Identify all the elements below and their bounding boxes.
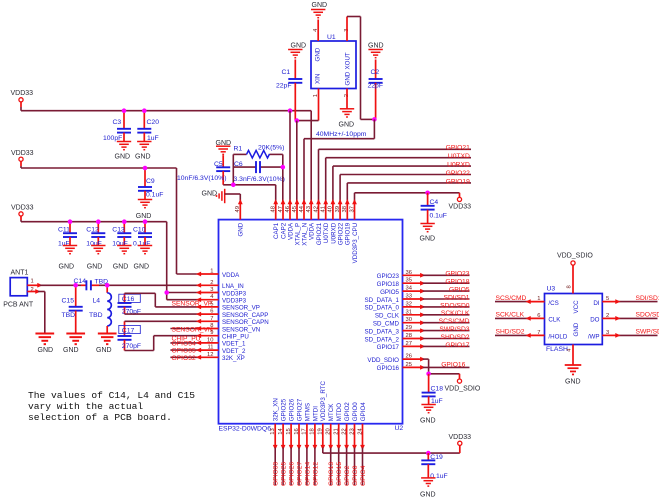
svg-text:selection of a PCB board.: selection of a PCB board. (28, 412, 172, 423)
wire CAP1 net (232, 154, 234, 184)
wire U1 pin3 XOUT (346, 17, 348, 42)
svg-text:37: 37 (349, 206, 355, 212)
pin 9 CHIP_PU (left) (198, 335, 218, 337)
svg-text:GND: GND (420, 492, 436, 499)
svg-text:1: 1 (210, 269, 213, 275)
wire C17 top to SENSOR_CAPN pin7 (125, 320, 199, 322)
svg-text:26: 26 (406, 354, 412, 360)
wire U1 pin1 XIN (318, 89, 320, 121)
svg-text:46: 46 (285, 206, 291, 212)
svg-text:GPIO19: GPIO19 (446, 178, 470, 185)
pin 40 U0RXD (top) (332, 202, 334, 220)
node rail3/C10 junction (143, 219, 148, 224)
ground ANT1 (35, 334, 54, 345)
wire GPIO19 net (346, 183, 348, 202)
svg-text:GPIO2: GPIO2 (344, 402, 351, 421)
wire SENSOR_VN stub pin8 (170, 328, 198, 330)
pin 12 32K_XP (left) (198, 356, 218, 358)
wire U3 SCS/CMD stub (495, 301, 528, 303)
node VDD_SDIO/C18 junction (426, 372, 431, 377)
svg-text:U0TXD: U0TXD (448, 153, 470, 160)
svg-text:SWP/SD3: SWP/SD3 (636, 329, 659, 336)
svg-text:GPIO32: GPIO32 (172, 355, 196, 362)
capacitor C20 (143, 111, 145, 129)
wire U3 SWP/SD3 stub (618, 334, 658, 336)
svg-text:GPIO17: GPIO17 (445, 342, 469, 349)
svg-text:2: 2 (210, 280, 213, 286)
svg-text:41: 41 (321, 206, 327, 212)
svg-text:14: 14 (278, 427, 284, 434)
wire GPIO5 net (423, 290, 470, 292)
svg-text:GPIO16: GPIO16 (377, 365, 400, 372)
wire C17 bottom to CHIP_PU pin9 (125, 350, 154, 352)
ground C12 (91, 246, 105, 254)
power symbol VDD33 (CPU) (457, 197, 461, 201)
wire VDD_SDIO pin26 net (423, 358, 429, 360)
svg-text:MTMS: MTMS (304, 403, 311, 421)
svg-text:5: 5 (210, 301, 213, 307)
node rail3/VDD3P3 pin3 junction (164, 290, 169, 295)
wire U0TXD net (325, 158, 327, 202)
svg-text:SD_DATA_0: SD_DATA_0 (364, 305, 399, 312)
svg-text:SENSOR_CAPN: SENSOR_CAPN (222, 319, 269, 326)
svg-text:20K(5%): 20K(5%) (258, 145, 284, 152)
svg-text:19: 19 (318, 428, 324, 434)
svg-text:GPIO21: GPIO21 (316, 222, 323, 245)
svg-text:22pF: 22pF (276, 83, 292, 90)
pin 44 XTAL_N (top) (303, 202, 305, 220)
pin 3 VDD3P3 (left) (198, 292, 218, 294)
svg-text:GND: GND (420, 418, 436, 425)
svg-text:22: 22 (341, 428, 347, 434)
svg-text:SDO/SD0: SDO/SD0 (440, 302, 470, 309)
svg-text:SD_CLK: SD_CLK (375, 313, 400, 320)
svg-text:8: 8 (567, 285, 573, 288)
svg-text:GPIO23: GPIO23 (377, 273, 400, 280)
svg-text:SD_CMD: SD_CMD (373, 321, 400, 328)
svg-text:7: 7 (210, 316, 213, 322)
wire GPIO33 net (bottom) (274, 448, 276, 486)
ground C15 (66, 334, 85, 345)
svg-text:0.1uF: 0.1uF (146, 192, 163, 199)
svg-text:GND: GND (345, 71, 352, 85)
pin 18 MTDI (bottom) (314, 424, 316, 448)
svg-text:GND: GND (312, 2, 328, 9)
svg-text:0.1uF: 0.1uF (430, 213, 447, 220)
svg-text:10uF: 10uF (86, 241, 102, 248)
wire GPIO14 net (bottom) (306, 448, 308, 486)
svg-text:SCK/CLK: SCK/CLK (441, 310, 470, 317)
node rail3/C11 junction (68, 219, 73, 224)
node rail2/C9 junction (143, 166, 148, 171)
wire GPIO34 stub pin10 (170, 342, 198, 344)
svg-text:/WP: /WP (588, 334, 600, 341)
pin 21 MTDO (bottom) (338, 424, 340, 448)
svg-text:SCS/CMD: SCS/CMD (496, 295, 527, 302)
svg-text:XIN: XIN (315, 74, 322, 84)
pin 24 GPIO4 (bottom) (362, 424, 364, 448)
svg-text:C1: C1 (282, 69, 291, 76)
svg-text:SD_DATA_3: SD_DATA_3 (364, 328, 399, 335)
svg-text:GPIO22: GPIO22 (446, 170, 470, 177)
svg-text:8: 8 (210, 323, 213, 329)
pin 37 VDD3P3_CPU (top) (354, 202, 356, 220)
capacitor C19 (427, 453, 429, 460)
node LNA/L4 junction (105, 283, 110, 288)
wire GPIO18 net (423, 282, 470, 284)
svg-text:15: 15 (286, 428, 292, 434)
svg-text:FLASH: FLASH (546, 346, 568, 353)
svg-text:32: 32 (406, 301, 412, 307)
svg-text:CAP2: CAP2 (280, 222, 287, 239)
svg-text:XTAL_N: XTAL_N (301, 223, 308, 246)
svg-text:MTCK: MTCK (328, 403, 335, 421)
svg-text:9: 9 (210, 330, 213, 336)
ground L4 (98, 334, 117, 345)
wire VDDA pin46 vertical (289, 111, 291, 202)
svg-text:GPIO4: GPIO4 (360, 465, 367, 486)
wire SCK/CLK net (423, 314, 470, 316)
pin 23 GPIO0 (bottom) (354, 424, 356, 448)
svg-text:44: 44 (299, 205, 305, 212)
wire VDD3P3_RTC net (322, 448, 324, 454)
pin 5 SENSOR_VP (left) (198, 306, 218, 308)
pin 11 VDET_2 (left) (198, 349, 218, 351)
svg-text:32K_XN: 32K_XN (273, 398, 280, 421)
svg-text:C2: C2 (371, 69, 380, 76)
node rail3/C13 junction (122, 219, 127, 224)
power symbol VDD33 (rail 2) (19, 157, 23, 161)
svg-text:L4: L4 (93, 298, 101, 305)
svg-text:VDD33: VDD33 (11, 90, 34, 97)
svg-text:22pF: 22pF (368, 83, 384, 90)
svg-text:GND: GND (63, 347, 79, 354)
pin 7 SENSOR_CAPN (left) (198, 320, 218, 322)
wire pin49 to GND (225, 193, 241, 195)
svg-text:C15: C15 (62, 298, 75, 305)
svg-text:C19: C19 (430, 454, 443, 461)
svg-text:36: 36 (406, 270, 412, 276)
wire U3 GND (572, 345, 574, 366)
svg-text:GPIO13: GPIO13 (328, 462, 335, 486)
svg-text:GPIO5: GPIO5 (380, 289, 399, 296)
svg-text:21: 21 (334, 428, 340, 434)
node C6/CAP2 junction (281, 165, 286, 170)
capacitor C17 (124, 321, 126, 336)
svg-text:C4: C4 (430, 199, 439, 206)
svg-text:49: 49 (235, 206, 241, 212)
capacitor C18 (428, 374, 430, 393)
svg-text:XTAL_P: XTAL_P (294, 223, 301, 246)
svg-text:TBD: TBD (89, 312, 103, 319)
wire U3 SDI/SD1 stub (618, 301, 658, 303)
wire VDD33 rail1 (20, 102, 22, 107)
svg-text:GND: GND (339, 122, 355, 129)
svg-text:43: 43 (306, 206, 312, 212)
pin 33 SD_DATA_1 (right) (403, 298, 423, 300)
svg-text:GPIO35: GPIO35 (172, 348, 196, 355)
crystal U1 box (311, 41, 356, 89)
pin 30 SD_CMD (right) (403, 322, 423, 324)
svg-text:SWP/SD3: SWP/SD3 (439, 326, 469, 333)
svg-text:40: 40 (328, 206, 334, 212)
svg-text:GPIO15: GPIO15 (336, 462, 343, 486)
wire C16 top to SENSOR_VP pin5 (125, 292, 156, 294)
wire GPIO13 net (bottom) (330, 448, 332, 486)
svg-text:DO: DO (590, 317, 599, 324)
node rail1/VDDA46 junction (288, 108, 293, 113)
svg-text:10: 10 (207, 337, 213, 343)
capacitor C13 (123, 222, 125, 234)
svg-text:SHD/SD2: SHD/SD2 (496, 329, 525, 336)
node LNA/C15 junction (73, 283, 78, 288)
svg-text:C10: C10 (133, 226, 146, 233)
svg-text:GND: GND (96, 347, 112, 354)
svg-text:10uF: 10uF (112, 241, 128, 248)
svg-text:GPIO17: GPIO17 (377, 344, 400, 351)
wire VDD3P3_CPU net (354, 193, 356, 202)
svg-text:VDD3P3_CPU: VDD3P3_CPU (352, 223, 359, 264)
svg-text:GND: GND (238, 222, 245, 236)
wire GPIO4 net (bottom) (362, 448, 364, 486)
svg-text:GND: GND (115, 154, 131, 161)
svg-text:XOUT: XOUT (345, 52, 352, 69)
wire GPIO22 net (339, 175, 341, 202)
svg-text:30: 30 (406, 317, 412, 323)
svg-text:GPIO16: GPIO16 (441, 362, 465, 369)
pin 49 GND (top) (239, 202, 241, 220)
svg-text:GND: GND (87, 264, 103, 271)
svg-text:CLK: CLK (548, 317, 561, 324)
wire U3 SHD/SD2 stub (495, 334, 528, 336)
svg-text:C20: C20 (147, 119, 160, 126)
wire VDD33 rail3 (20, 216, 22, 220)
svg-text:SD_DATA_1: SD_DATA_1 (364, 297, 399, 304)
svg-text:SENSOR_CAPP: SENSOR_CAPP (222, 312, 268, 319)
wire C16 bottom to SENSOR_CAPP pin6 (125, 313, 199, 315)
capacitor C6 (233, 166, 256, 168)
svg-text:3.3nF/6.3V(10%): 3.3nF/6.3V(10%) (234, 176, 285, 183)
svg-text:SDO/SD0: SDO/SD0 (636, 312, 659, 319)
ground C11 (63, 246, 77, 254)
pin 10 VDET_1 (left) (198, 342, 218, 344)
node RTC/C19 junction (426, 451, 431, 456)
svg-text:VDD33: VDD33 (449, 434, 472, 441)
pin 6 SENSOR_CAPP (left) (198, 313, 218, 315)
ground C10 (138, 246, 152, 254)
svg-text:VDET_1: VDET_1 (222, 341, 246, 348)
wire VDD33 rail2 (20, 161, 22, 166)
svg-text:VDDA: VDDA (222, 272, 240, 279)
wire GPIO27 net (bottom) (298, 448, 300, 486)
pin 41 U0TXD (top) (325, 202, 327, 220)
svg-text:GPIO34: GPIO34 (172, 341, 196, 348)
pin 13 32K_XN (bottom) (274, 424, 276, 448)
svg-text:VDD_SDIO: VDD_SDIO (445, 386, 481, 393)
svg-text:28: 28 (406, 333, 412, 339)
svg-text:GPIO25: GPIO25 (281, 398, 288, 421)
svg-text:VDD33: VDD33 (11, 150, 34, 157)
wire U3 VCC (572, 265, 574, 293)
svg-text:48: 48 (271, 206, 277, 212)
wire SDO/SD0 net (423, 306, 470, 308)
svg-text:U2: U2 (395, 425, 404, 432)
svg-text:/HOLD: /HOLD (548, 334, 567, 341)
svg-text:47: 47 (278, 206, 284, 212)
node rail1/C3 junction (122, 108, 127, 113)
wire U3 SCK/CLK stub (495, 317, 528, 319)
svg-text:SENSOR_VN: SENSOR_VN (222, 326, 260, 333)
svg-text:U0RXD: U0RXD (447, 162, 470, 169)
wire U1 pin2 to GND (346, 89, 348, 109)
svg-text:VDD3P3_RTC: VDD3P3_RTC (320, 381, 327, 422)
pin 45 XTAL_P (top) (296, 202, 298, 220)
svg-text:35: 35 (406, 278, 412, 284)
svg-text:/CS: /CS (548, 300, 558, 307)
ground U3 (565, 365, 582, 374)
pin 47 CAP2 (top) (282, 202, 284, 220)
svg-text:MTDO: MTDO (336, 403, 343, 421)
svg-text:GPIO22: GPIO22 (338, 222, 345, 245)
wire U1 pin4 to GND (317, 20, 319, 42)
svg-text:34: 34 (406, 286, 413, 292)
pin 43 VDDA (top) (310, 202, 312, 220)
ground U1 pin2 (340, 109, 354, 117)
svg-text:GPIO18: GPIO18 (445, 279, 469, 286)
svg-text:GND: GND (202, 191, 218, 198)
svg-text:MTDI: MTDI (312, 406, 319, 421)
wire U0RXD net (332, 166, 334, 201)
pin 8 SENSOR_VN (left) (198, 328, 218, 330)
svg-text:GPIO0: GPIO0 (352, 402, 359, 421)
capacitor C9 (144, 168, 146, 187)
svg-text:GPIO25: GPIO25 (281, 462, 288, 486)
svg-text:VDD3P3: VDD3P3 (222, 290, 247, 297)
node rail1/C20 junction (142, 108, 147, 113)
capacitor C4 (427, 193, 429, 206)
wire GPIO23 net (423, 274, 470, 276)
ground C3 (117, 142, 131, 150)
svg-text:VDD_SDIO: VDD_SDIO (557, 252, 593, 259)
svg-text:GPIO23: GPIO23 (445, 271, 469, 278)
wire SDI/SD1 net (423, 298, 470, 300)
node XOUT/C2/XTAL_N junction (372, 117, 377, 122)
node XIN/C1/XTAL_P junction (295, 118, 300, 123)
pin 20 MTCK (bottom) (330, 424, 332, 448)
svg-text:DI: DI (593, 300, 599, 307)
svg-text:GPIO2: GPIO2 (344, 465, 351, 486)
capacitor C16 (124, 293, 126, 303)
wire XTAL_P vertical (296, 121, 298, 202)
svg-text:17: 17 (302, 428, 308, 434)
svg-text:LNA_IN: LNA_IN (222, 283, 244, 290)
svg-text:GND: GND (565, 379, 581, 386)
pin 1 VDDA (left) (198, 273, 218, 275)
svg-text:38: 38 (342, 206, 348, 212)
svg-text:ESP32-D0WDQ6: ESP32-D0WDQ6 (219, 426, 272, 433)
pin 17 MTMS (bottom) (306, 424, 308, 448)
svg-text:SCS/CMD: SCS/CMD (439, 318, 470, 325)
svg-text:C3: C3 (113, 119, 122, 126)
wire GPIO35 stub pin11 (170, 349, 198, 351)
svg-text:42: 42 (313, 206, 319, 212)
svg-text:GND: GND (573, 322, 580, 336)
svg-text:16: 16 (294, 428, 300, 434)
pin 19 VDD3P3_RTC (bottom) (322, 424, 324, 448)
svg-text:0.1uF: 0.1uF (133, 241, 150, 248)
svg-text:GPIO14: GPIO14 (304, 462, 311, 486)
power symbol VDD33 (RTC) (458, 441, 462, 445)
svg-text:GND: GND (291, 43, 307, 50)
svg-text:GND: GND (113, 264, 129, 271)
wire GPIO0 net (bottom) (354, 448, 356, 486)
svg-text:24: 24 (357, 427, 363, 434)
node VDD3P3_CPU/C4 junction (425, 191, 430, 196)
svg-text:C13: C13 (112, 226, 125, 233)
pin 22 GPIO2 (bottom) (346, 424, 348, 448)
svg-text:13: 13 (270, 428, 276, 434)
svg-text:GND: GND (135, 154, 151, 161)
svg-text:GPIO5: GPIO5 (449, 287, 470, 294)
svg-text:GND: GND (59, 264, 75, 271)
svg-text:The values of C14, L4 and C15: The values of C14, L4 and C15 (28, 390, 195, 401)
svg-text:GND: GND (134, 264, 150, 271)
svg-text:U3: U3 (547, 286, 556, 293)
wire GPIO25 net (bottom) (282, 448, 284, 486)
antenna ANT1 PCB ANT (10, 278, 27, 296)
svg-text:GPIO18: GPIO18 (377, 281, 400, 288)
wire SCS/CMD net (423, 322, 470, 324)
pin 25 GPIO16 (right) (403, 366, 423, 368)
capacitor C11 (69, 222, 71, 234)
svg-text:VDDA: VDDA (287, 222, 294, 240)
svg-text:GPIO19: GPIO19 (345, 222, 352, 245)
svg-text:U0TXD: U0TXD (323, 222, 330, 243)
svg-text:20: 20 (326, 428, 332, 434)
pin 32 SD_DATA_0 (right) (403, 306, 423, 308)
ground C1 (above) (288, 50, 302, 58)
pin 26 VDD_SDIO (right) (403, 358, 423, 360)
svg-text:39: 39 (335, 206, 341, 212)
svg-text:C6: C6 (234, 161, 243, 168)
wire GPIO15 net (bottom) (338, 448, 340, 486)
svg-text:40MHz+/-10ppm: 40MHz+/-10ppm (316, 131, 367, 138)
wire GPIO2 net (bottom) (346, 448, 348, 486)
svg-text:25: 25 (406, 362, 412, 368)
wire SWP/SD3 net (423, 330, 470, 332)
power symbol VDD_SDIO (right of C18) (457, 379, 461, 383)
svg-text:SHD/SD2: SHD/SD2 (441, 334, 470, 341)
pin 35 GPIO18 (right) (403, 282, 423, 284)
ground C20 (137, 142, 151, 150)
capacitor C3 (123, 111, 125, 129)
svg-text:32K_XP: 32K_XP (222, 355, 245, 362)
resistor R1 (233, 153, 246, 155)
svg-text:SENSOR_VN: SENSOR_VN (172, 327, 213, 334)
pin 15 GPIO26 (bottom) (290, 424, 292, 448)
svg-text:TBD: TBD (62, 312, 76, 319)
svg-text:27: 27 (406, 341, 412, 347)
svg-text:GPIO4: GPIO4 (360, 402, 367, 421)
ground C4 (420, 224, 434, 232)
node C5/CAP1 junction (231, 183, 236, 188)
svg-text:C17: C17 (122, 327, 135, 334)
svg-text:SD_DATA_2: SD_DATA_2 (364, 336, 399, 343)
svg-text:ANT1: ANT1 (11, 270, 29, 277)
wire U3 SDO/SD0 stub (618, 317, 658, 319)
ground C19 (421, 478, 435, 486)
svg-text:R1: R1 (234, 146, 243, 153)
